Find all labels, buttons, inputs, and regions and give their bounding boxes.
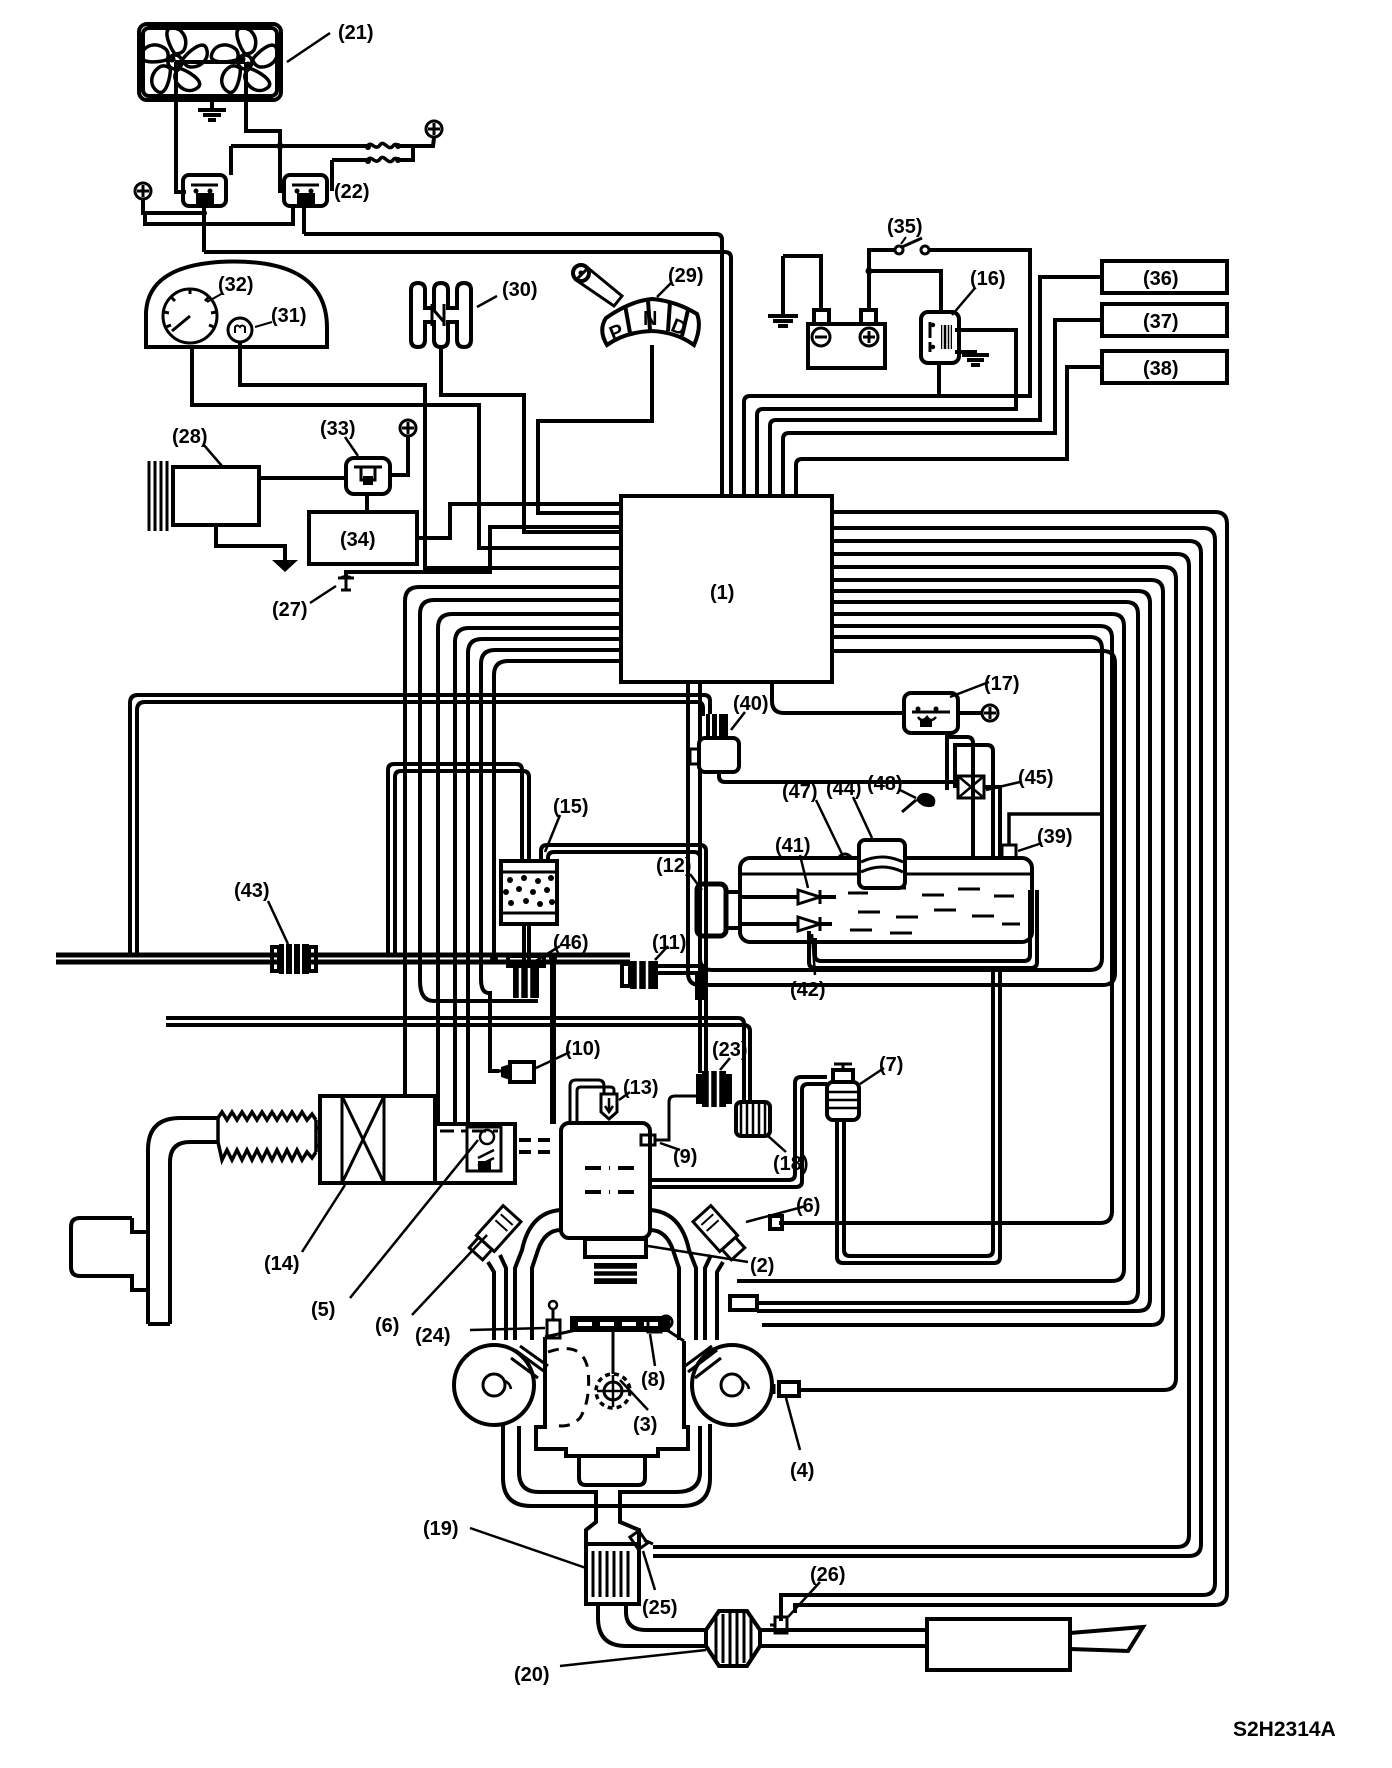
svg-text:(7): (7) <box>879 1054 903 1076</box>
exhaust Y pipe outer <box>503 1424 710 1506</box>
label (2) <box>648 1246 774 1277</box>
svg-text:(47): (47) <box>782 781 818 803</box>
label (46) <box>534 932 589 962</box>
svg-text:(19): (19) <box>423 1518 459 1540</box>
throttle sensor (5) <box>467 1127 501 1171</box>
label (44) <box>826 778 872 838</box>
canister bottom stem to (46) <box>524 924 529 961</box>
wire ECU left bundle 7 to (46) <box>494 661 621 955</box>
wire from terminal to relay plugs <box>143 199 304 252</box>
shift lever gate (30) <box>411 283 471 347</box>
svg-text:(45): (45) <box>1018 767 1054 789</box>
fuel tank <box>740 858 1032 942</box>
svg-text:(48): (48) <box>867 773 903 795</box>
main relay (16) <box>921 312 959 363</box>
wire ECU right 8 to engine connector <box>757 602 1138 1303</box>
svg-text:(13): (13) <box>623 1077 659 1099</box>
label (39) <box>1018 826 1073 851</box>
inhibitor switch quadrant (29) <box>602 299 699 345</box>
label (12) <box>656 855 702 890</box>
relay ground <box>955 352 989 365</box>
shift lever arm (29) <box>573 265 622 306</box>
svg-text:N: N <box>643 308 657 330</box>
wire right fan to relay <box>246 100 286 191</box>
wire ECU right 4 to (25) <box>653 554 1189 1547</box>
svg-text:(12): (12) <box>656 855 692 877</box>
label (21) <box>287 22 374 62</box>
svg-text:(2): (2) <box>750 1255 774 1277</box>
svg-text:(42): (42) <box>790 979 826 1001</box>
label (3) <box>620 1380 657 1436</box>
wire ECU left bundle 3 <box>438 614 621 1124</box>
label (30) <box>477 279 538 307</box>
wire ECU bottom to (17) <box>772 682 904 713</box>
wire relay 16 output to ECU <box>757 330 1016 496</box>
vent valve (48) <box>902 793 935 812</box>
odometer (31) <box>228 318 252 342</box>
battery feed terminal left of relays <box>135 183 151 199</box>
svg-text:(44): (44) <box>826 778 862 800</box>
label (4) <box>786 1398 814 1482</box>
label (7) <box>860 1054 903 1084</box>
hose main left loop horizontal pair with (43) <box>56 955 630 962</box>
label (14) <box>264 1185 345 1275</box>
vent pipe pair from tank top <box>947 737 993 858</box>
throttle body <box>435 1124 515 1183</box>
sender (47) <box>838 854 852 858</box>
wire box36 to ECU <box>770 277 1102 496</box>
svg-text:(16): (16) <box>970 268 1006 290</box>
purge valve (46) <box>508 956 544 998</box>
radiator fan assembly (21) <box>139 24 281 100</box>
wire speedometer to ECU <box>192 347 621 548</box>
left pulley <box>454 1345 534 1425</box>
label (42) <box>790 934 826 1001</box>
wire ECU right 12 enclosure outer <box>688 651 1115 985</box>
speedometer dial (32) <box>163 289 217 343</box>
right intake runner <box>650 1210 696 1340</box>
fuel hose (7) bottom to tank <box>837 968 1000 1263</box>
wire ECU left bundle 6 to solenoid (10) <box>481 650 621 1071</box>
svg-text:(36): (36) <box>1143 268 1179 290</box>
label (24) <box>415 1325 545 1347</box>
connector (23) <box>698 1071 730 1107</box>
label (48) <box>867 773 916 798</box>
svg-text:(10): (10) <box>565 1038 601 1060</box>
muffler <box>927 1619 1070 1670</box>
svg-text:(41): (41) <box>775 835 811 857</box>
wire (28) to (33) <box>259 476 346 480</box>
injector left (24) <box>547 1301 560 1338</box>
label (45) <box>986 767 1054 790</box>
left blowby boot (6) <box>467 1206 521 1262</box>
rear catalytic converter (20) <box>706 1611 760 1666</box>
label (10) <box>536 1038 601 1068</box>
wire ECU left bundle 5 <box>468 639 621 1124</box>
svg-text:(37): (37) <box>1143 311 1179 333</box>
injector right <box>648 1316 672 1332</box>
label (47) <box>782 781 842 854</box>
PCV valve (18) <box>736 1102 770 1136</box>
vacuum hose pair to (18) <box>166 1018 750 1104</box>
ignition coil resistor (28) <box>149 461 259 531</box>
svg-text:(22): (22) <box>334 181 370 203</box>
svg-text:(23): (23) <box>712 1039 748 1061</box>
tailpipe <box>1070 1627 1143 1651</box>
battery <box>808 310 885 368</box>
svg-text:(8): (8) <box>641 1369 665 1391</box>
label (5) <box>311 1140 478 1321</box>
check valve (42) <box>740 917 832 931</box>
rear oxygen sensor (26) <box>770 1617 787 1633</box>
terminal right of (17) <box>958 705 998 721</box>
valve (13) <box>570 1080 617 1123</box>
fan relay right (22) <box>284 175 327 206</box>
label (26) <box>788 1564 846 1617</box>
svg-text:(17): (17) <box>984 673 1020 695</box>
box (34) <box>309 512 417 564</box>
wire (40) to (45) <box>719 772 958 782</box>
pressure source (9) <box>641 1096 697 1145</box>
svg-text:(6): (6) <box>375 1315 399 1337</box>
wire battery plus to switch <box>869 250 895 312</box>
label (32) <box>207 274 254 302</box>
label (9) <box>660 1143 697 1168</box>
wire ECU right 1 to (26) area <box>795 512 1227 1613</box>
ground below (28) <box>216 525 298 572</box>
wire shifter to ECU <box>441 347 621 532</box>
label (28) <box>172 426 222 466</box>
front oxygen sensor (25) <box>630 1531 653 1550</box>
svg-text:(11): (11) <box>652 932 686 954</box>
fan blades left (21) <box>140 28 211 96</box>
svg-text:(15): (15) <box>553 796 589 818</box>
right blowby boot (6) <box>693 1206 747 1262</box>
air intake snorkel pipe <box>148 1118 218 1324</box>
label (6) right <box>746 1195 820 1222</box>
test connector (27) <box>338 527 621 590</box>
fan blades right (21) <box>210 28 281 96</box>
svg-text:(14): (14) <box>264 1253 300 1275</box>
battery terminal symbol fuse wire <box>426 121 442 137</box>
wire battery branch to relay (16) <box>869 271 941 312</box>
hose (11) to (23) <box>658 966 704 1000</box>
svg-text:(9): (9) <box>673 1146 697 1168</box>
surge tank manifold <box>519 1123 650 1238</box>
svg-text:(29): (29) <box>668 265 704 287</box>
wire ECU right 6 to engine sensor <box>762 580 1163 1325</box>
solenoid valve (10) <box>490 1062 534 1082</box>
fuse wire upper with battery terminal <box>231 138 434 175</box>
intake bellows <box>218 1112 320 1160</box>
label (20) <box>514 1650 706 1686</box>
purge solenoid (40) <box>690 714 739 772</box>
ground near battery <box>768 256 821 326</box>
box (36) <box>1102 261 1227 293</box>
box (38) <box>1102 351 1227 383</box>
vapor vent cap (39) <box>1002 814 1102 858</box>
label (43) <box>234 880 288 944</box>
pipe to muffler <box>760 1630 927 1646</box>
wire ECU right 11 enclosure <box>700 637 1102 970</box>
svg-text:(26): (26) <box>810 1564 846 1586</box>
wire odometer to ECU <box>240 342 621 568</box>
label (18) <box>768 1136 809 1175</box>
wire relay right to ECU top <box>304 234 722 496</box>
sensor (33) <box>346 458 390 494</box>
under-tank hose from (42) <box>809 890 1037 968</box>
exhaust Y pipe inner <box>519 1426 700 1506</box>
wire ECU left bundle 2 to (46) <box>420 600 621 1001</box>
label (25) <box>642 1551 678 1619</box>
svg-text:(25): (25) <box>642 1597 678 1619</box>
hose left riser pair <box>130 695 710 955</box>
wire ECU right 7 to engine sensor <box>757 591 1150 1311</box>
pipe catalyst to rear cat <box>598 1604 706 1646</box>
right blowby boot (6) pipe <box>705 1255 723 1340</box>
svg-text:(28): (28) <box>172 426 208 448</box>
fuel filter (7) <box>827 1064 859 1120</box>
wire left fan to relay <box>176 100 186 192</box>
fan relay left (22) <box>183 175 226 206</box>
fuel filter (43) <box>272 944 316 974</box>
fuel pump (44) <box>859 840 905 888</box>
label (8) <box>641 1334 665 1391</box>
air cleaner (14) <box>320 1096 435 1183</box>
rollover valve (45) <box>958 776 984 798</box>
label (31) <box>255 305 307 327</box>
svg-text:(1): (1) <box>710 582 734 604</box>
svg-text:(38): (38) <box>1143 358 1179 380</box>
battery terminal above (33) <box>390 420 416 475</box>
label (27) <box>272 586 336 621</box>
ground below fan assembly <box>198 100 226 120</box>
air intake resonator <box>71 1218 148 1290</box>
wire ECU right 9 to intake sensor <box>737 614 1124 1281</box>
canister left vent hose <box>388 764 529 955</box>
svg-text:(24): (24) <box>415 1325 451 1347</box>
svg-text:S2H2314A: S2H2314A <box>1233 1718 1336 1741</box>
left blowby boot (6) pipe <box>488 1255 506 1340</box>
filler neck (12) <box>697 884 740 936</box>
instrument cluster (32) <box>146 262 327 347</box>
svg-text:(27): (27) <box>272 599 308 621</box>
fuse wire lower <box>332 147 413 191</box>
fuel pump relay box (17) <box>904 693 958 733</box>
idle air control (2) <box>585 1239 646 1284</box>
svg-text:(35): (35) <box>887 216 923 238</box>
wire box38 to ECU <box>796 367 1102 496</box>
ignition switch (35) <box>895 238 929 254</box>
wire (34) to ECU <box>417 504 621 538</box>
fuel hose (7) to rail <box>652 1077 827 1187</box>
connector on engine right wires <box>730 1296 757 1310</box>
wire ECU right 5 to ignition coil (4) <box>799 567 1176 1390</box>
label (29) <box>657 265 704 297</box>
front catalytic converter (19) <box>586 1544 639 1604</box>
svg-text:(21): (21) <box>338 22 374 44</box>
canister (15) <box>501 861 557 924</box>
label (41) <box>775 835 811 888</box>
svg-text:(31): (31) <box>271 305 307 327</box>
svg-text:(39): (39) <box>1037 826 1073 848</box>
label (23) <box>712 1039 748 1070</box>
camshaft cover rail (8) <box>570 1316 670 1332</box>
check valve (41) <box>740 890 836 904</box>
downpipe to catalyst <box>586 1506 639 1544</box>
wire box37 to ECU <box>783 320 1102 496</box>
wire switch to ECU <box>744 250 1030 496</box>
wire ECU right 3 to (25) <box>653 541 1201 1556</box>
label (19) <box>423 1518 586 1568</box>
wire ECU right 10 to intake boot sensor <box>779 626 1112 1223</box>
label (6) left <box>375 1235 487 1337</box>
nub wire10 end <box>770 1216 782 1229</box>
label (13) <box>619 1077 659 1100</box>
engine block <box>536 1330 688 1485</box>
svg-text:(46): (46) <box>553 932 589 954</box>
label (35) <box>887 216 923 244</box>
label (15) <box>545 796 589 852</box>
wire ECU left bundle 1 <box>405 587 621 1096</box>
label (16) <box>952 268 1006 315</box>
two-way valve (11) <box>622 961 658 989</box>
wire (33) to (34) <box>365 494 369 512</box>
wire ECU right 2 to (26) <box>781 528 1215 1621</box>
wire inhibitor to ECU <box>538 345 652 513</box>
label (11) <box>652 932 686 960</box>
thick hose down from junction <box>550 958 556 1124</box>
svg-text:(43): (43) <box>234 880 270 902</box>
ignition coil (4) <box>774 1382 799 1396</box>
left intake runner <box>515 1210 561 1340</box>
svg-text:(40): (40) <box>733 693 769 715</box>
svg-text:(33): (33) <box>320 418 356 440</box>
svg-text:(6): (6) <box>796 1195 820 1217</box>
svg-text:(5): (5) <box>311 1299 335 1321</box>
svg-text:(32): (32) <box>218 274 254 296</box>
hose (45) to tank <box>984 787 1000 858</box>
canister inlet elbow (15) <box>541 845 706 1073</box>
label (33) <box>320 418 358 456</box>
svg-text:(4): (4) <box>790 1460 814 1482</box>
svg-text:(3): (3) <box>633 1414 657 1436</box>
ECU box (1) <box>621 496 832 682</box>
right pulley <box>692 1345 772 1425</box>
svg-text:D: D <box>668 315 690 341</box>
wire relay left to ECU top <box>204 252 731 496</box>
svg-text:(34): (34) <box>340 529 376 551</box>
label (40) <box>731 693 769 730</box>
svg-text:(20): (20) <box>514 1664 550 1686</box>
svg-text:(30): (30) <box>502 279 538 301</box>
label (17) <box>950 673 1020 697</box>
box (37) <box>1102 304 1227 336</box>
wire ECU left bundle 4 <box>455 628 621 1124</box>
boot hatch ends on block <box>511 1346 721 1378</box>
crank sprocket (3) <box>596 1332 630 1408</box>
wire relay 16 lower pin <box>937 363 941 396</box>
